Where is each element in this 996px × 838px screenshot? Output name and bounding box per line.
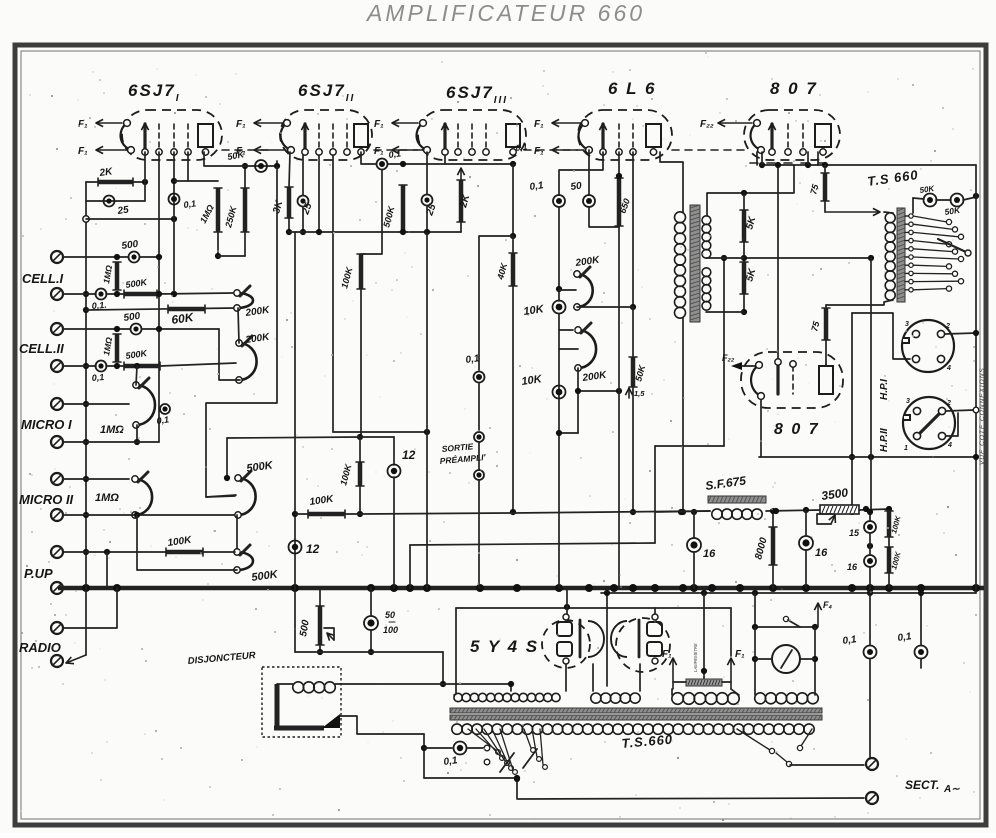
resistor 500K tube2: [401, 185, 406, 232]
resistor 100K r1: [887, 511, 892, 537]
wire micro1 hi: [63, 403, 129, 405]
potentiometer 200K drive1: [577, 274, 593, 307]
tube 6SJ7-II grid pin: [346, 124, 348, 149]
svg-text:1,5: 1,5: [634, 389, 645, 398]
wire y232 cathode rail: [289, 231, 461, 233]
svg-text:RADIO: RADIO: [19, 640, 61, 655]
wire to pot: [157, 293, 233, 294]
TS660 tap fan wire: [913, 257, 959, 259]
junction: [556, 286, 562, 292]
TS660 tap: [905, 223, 911, 225]
wire x361: [360, 289, 362, 438]
capacitor 0,1 micro: [160, 404, 170, 414]
terminal P.UP in lo: [51, 582, 63, 594]
junction diamonds: [678, 509, 684, 515]
wire y432: [333, 431, 427, 433]
resistor 1M vertical: [216, 188, 221, 232]
junction: [114, 326, 120, 332]
wire x870 low: [869, 588, 871, 645]
wire x889: [888, 537, 890, 547]
wire coupling to grid3: [388, 163, 513, 165]
terminal CELL.II in hi: [51, 323, 63, 335]
wire y219: [86, 218, 174, 220]
wire coil left: [277, 683, 293, 685]
wire x655 riser: [654, 446, 656, 543]
tube 6SJ7-III envelope: [418, 110, 526, 160]
tube 6SJ7-I heater leads F: [96, 122, 122, 124]
wire x218: [217, 232, 219, 256]
bus junction: [513, 584, 521, 592]
wire sec right taps: [737, 729, 770, 750]
tube 807 cathode: [751, 123, 761, 150]
junction on x86: [83, 307, 89, 313]
wire x704 centre: [703, 593, 705, 679]
wire x825: [824, 165, 826, 173]
fan switch arm b: [523, 749, 537, 768]
TS660 tap fan wire: [913, 216, 947, 222]
bus junction: [972, 584, 980, 592]
wire: [478, 383, 480, 430]
5Y4S filament arc b: [611, 621, 627, 657]
capacitor 25 tube3: [422, 195, 433, 206]
T.S.660 core bottom: [450, 715, 822, 720]
TS660 tap fan wire: [913, 224, 953, 229]
TS660 tap: [905, 215, 911, 217]
svg-text:6 L 6: 6 L 6: [608, 79, 656, 98]
capacitor 16 a: [687, 538, 701, 552]
junction: [83, 216, 89, 222]
TS660 winding c F: [672, 693, 684, 705]
svg-text:16: 16: [703, 548, 716, 560]
capacitor sortie a: [474, 432, 484, 442]
svg-text:8 0 7: 8 0 7: [770, 79, 818, 98]
wire 807L heater arrow: [742, 365, 755, 367]
potentiometer 1M MICRO I: [136, 385, 155, 425]
wire y593: [601, 592, 976, 594]
junction on x86: [83, 401, 89, 407]
wire: [302, 155, 304, 195]
bus junction: [113, 584, 121, 592]
resistor 500K: [124, 292, 157, 297]
ground bus wire: [58, 586, 984, 591]
tube 6SJ7-III control grid: [443, 124, 446, 150]
wire pup row: [63, 551, 166, 553]
terminal RADIO in hi: [51, 622, 63, 634]
resistor 60K: [168, 307, 205, 312]
svg-text:8 0 7: 8 0 7: [774, 421, 820, 438]
output transformer secondary coil b: [702, 268, 711, 277]
resistor 8000: [771, 527, 776, 565]
wire x913 stub: [912, 198, 914, 213]
capacitor 12: [289, 541, 302, 554]
wire CELL.I lo: [63, 293, 96, 295]
resistor 5K b: [742, 262, 747, 294]
tube 6SJ7-II control grid: [303, 124, 306, 150]
TS660 tap: [905, 281, 911, 283]
wire: [776, 753, 787, 762]
bus junction: [610, 584, 618, 592]
contact: [484, 759, 490, 765]
wire F4 arrow: [817, 603, 819, 627]
wire y258 link: [706, 257, 744, 259]
capacitor 12 b: [388, 465, 401, 478]
tube 6L6 cathode: [579, 123, 589, 150]
bus junction: [769, 584, 777, 592]
wire y256: [218, 255, 245, 257]
filament dash links between tubes: [222, 149, 268, 151]
svg-text:2: 2: [946, 400, 951, 407]
wire y391: [578, 390, 619, 392]
resistor 100K lower: [358, 462, 363, 486]
wire x806: [805, 510, 807, 536]
wire 807 plate drop: [817, 152, 819, 165]
bus junction: [629, 584, 637, 592]
capacitor 0,1 br a: [864, 646, 877, 659]
wire pot M1 top: [136, 366, 137, 385]
wire CELL.I hi: [63, 256, 128, 258]
wire: [558, 314, 560, 433]
TS660 switch arm: [938, 239, 966, 252]
tube 6SJ7-III plate: [506, 124, 520, 147]
capacitor 0,1 sortie: [474, 372, 485, 383]
svg-text:2: 2: [945, 323, 950, 330]
wire: [142, 328, 219, 330]
capacitor 16 c: [864, 555, 876, 567]
wire x410: [409, 545, 411, 588]
bus junction: [291, 584, 299, 592]
wire pin2 drop x159: [158, 152, 160, 442]
svg-text:3: 3: [906, 398, 910, 405]
junction: [114, 254, 120, 260]
capacitor 0,1: [96, 361, 107, 372]
terminal MICRO I in lo: [51, 436, 63, 448]
svg-text:25: 25: [116, 204, 130, 217]
wire 807L grid feed: [777, 165, 779, 358]
resistor 50K: [631, 357, 636, 387]
wire y652: [295, 651, 443, 653]
wire primary bottom: [682, 318, 684, 512]
svg-text:LAMPEMETRE: LAMPEMETRE: [693, 643, 698, 672]
wire: [393, 477, 395, 588]
speaker socket HP II: [903, 397, 955, 449]
wire x852: [851, 313, 853, 512]
TS660 winding b: [591, 693, 601, 703]
fan tap wire: [468, 729, 496, 750]
svg-text:4: 4: [947, 442, 952, 449]
wire x619 down: [618, 226, 620, 588]
wire x227 drop: [226, 438, 228, 478]
svg-text:F₂₂: F₂₂: [700, 119, 714, 130]
wire x86 to RADIO lo: [66, 655, 86, 663]
wire: [86, 200, 145, 202]
wire grid2 stub: [276, 161, 278, 166]
wire y457: [759, 456, 976, 458]
tube 6SJ7-I cathode: [121, 123, 131, 150]
svg-text:F₁: F₁: [374, 119, 384, 130]
tube 807 control grid: [770, 124, 773, 150]
wire x773: [772, 511, 774, 527]
TS660 tap fan wire: [913, 272, 953, 274]
wire 5Y4S bottom lead: [565, 664, 567, 691]
bus junction: [476, 584, 484, 592]
bus junction: [585, 584, 593, 592]
wire 807L plate lead: [825, 364, 827, 366]
wire micro1 lo: [63, 441, 159, 443]
svg-text:1: 1: [904, 445, 908, 452]
svg-text:4: 4: [946, 365, 951, 372]
svg-text:0,1: 0,1: [529, 180, 545, 193]
wire caps row: [913, 198, 924, 199]
wire pot C loop: [137, 515, 237, 570]
wire cath loop: [589, 207, 619, 227]
potentiometer 200K A: [237, 293, 253, 308]
terminal MICRO I in hi: [51, 398, 63, 410]
wire x755: [754, 593, 756, 627]
wire plate3 drop x513: [512, 164, 514, 236]
tube 807L grid bar: [776, 363, 779, 394]
wire x633 low: [632, 307, 634, 357]
junction on x86: [83, 291, 89, 297]
wire x731 to winding: [731, 689, 739, 695]
wire y310 60K row: [86, 308, 236, 310]
speaker socket HP I: [902, 320, 954, 372]
svg-text:100: 100: [383, 625, 398, 635]
resistor 250K: [243, 188, 248, 232]
resistor 1M CELL.II: [115, 334, 120, 362]
disjoncteur wedge: [322, 714, 340, 728]
wire meter taps: [755, 658, 772, 660]
terminal CELL.I in lo: [51, 288, 63, 300]
svg-text:P.UP: P.UP: [24, 566, 53, 581]
wire x731 drop: [730, 608, 732, 656]
disjoncteur coil: [293, 682, 304, 693]
5Y4S plate b2: [647, 642, 662, 656]
tube 6L6 plate: [646, 124, 661, 147]
svg-text:F₁: F₁: [735, 649, 745, 660]
svg-text:F₁: F₁: [78, 119, 88, 130]
TS660 tap: [905, 289, 911, 291]
wire y236 sortie branch: [479, 236, 513, 370]
choke S.F.675 core: [708, 496, 766, 503]
wire bus to 5Y4S: [566, 588, 568, 607]
wire 75b: [825, 305, 827, 308]
wire 2K bottom: [460, 222, 462, 232]
tube 6SJ7-III grid pin: [457, 124, 459, 149]
dash row under 807: [750, 162, 835, 164]
svg-text:VUE COTE CONNEXIONS: VUE COTE CONNEXIONS: [979, 367, 986, 465]
bus junction: [651, 584, 659, 592]
junction on x86: [83, 549, 89, 555]
output transformer secondary coil a: [702, 216, 711, 225]
tube 6SJ7-III cathode: [417, 123, 427, 150]
resistor 500K CELL.II: [124, 364, 160, 369]
wire pot M1 bottom: [136, 425, 138, 442]
wire 5Y4S right top: [654, 608, 656, 614]
TS660 tap fan wire: [913, 265, 947, 266]
bus junction: [82, 584, 90, 592]
junction on x86: [83, 439, 89, 445]
resistor 1M CELL.I: [115, 262, 120, 290]
fan tap wire: [524, 729, 531, 748]
wire x443: [442, 652, 444, 684]
fan tap wire: [476, 729, 500, 756]
svg-text:0,1: 0,1: [515, 141, 528, 153]
svg-text:12: 12: [306, 542, 320, 556]
svg-text:50: 50: [570, 180, 583, 193]
wire branch pot2 wiper: [559, 348, 578, 350]
wire x513 lower: [512, 236, 514, 253]
bus junction: [885, 584, 893, 592]
bus junction: [367, 584, 375, 592]
capacitor 0,1 disj: [454, 742, 467, 755]
wire pot1 bottom row: [577, 306, 633, 308]
wire x245: [244, 166, 246, 188]
label 1,5 arrow: [628, 388, 630, 398]
wire coil to x511: [335, 683, 511, 685]
svg-text:1MΩ: 1MΩ: [95, 492, 119, 504]
terminal RADIO in lo: [51, 655, 63, 667]
wire rail mid: [766, 510, 820, 511]
svg-text:12: 12: [402, 448, 416, 462]
svg-text:MICRO II: MICRO II: [19, 492, 74, 507]
svg-text:3: 3: [905, 321, 909, 328]
output transformer core: [690, 205, 700, 322]
wire meter left: [754, 627, 756, 695]
bus junction: [736, 584, 744, 592]
disjoncteur contact bar h: [274, 726, 324, 731]
wire x607 filament feed: [606, 593, 608, 686]
resistor 650: [617, 178, 622, 226]
choke S.F.675 winding: [712, 509, 722, 519]
junction on x86: [83, 476, 89, 482]
tube 807 heater leads F: [718, 122, 752, 124]
capacitor 50K a: [924, 194, 937, 207]
wire secondary top lead: [707, 165, 794, 216]
wire y437 right: [360, 436, 394, 438]
svg-text:0,1: 0,1: [388, 148, 402, 160]
tube 807 grid pin: [787, 124, 789, 149]
wire F1 right arrow: [730, 658, 732, 689]
wire to wiper: [203, 551, 235, 553]
svg-text:16: 16: [815, 547, 828, 559]
wire meter right: [814, 627, 816, 695]
fan tap wire: [484, 729, 505, 761]
wire: [869, 659, 871, 758]
wire: [467, 747, 484, 749]
T.S.660 core top: [450, 708, 822, 713]
svg-text:H.P.II: H.P.II: [879, 428, 890, 452]
potentiometer 1M MICRO II: [135, 479, 152, 515]
wire x870 mid: [869, 512, 871, 521]
HP II shorting bar: [920, 414, 939, 433]
wire cath2: [289, 152, 290, 187]
tube 6L6 grid pin: [632, 124, 634, 149]
resistor 2K tube3: [459, 180, 464, 222]
wire to pot B: [160, 363, 236, 366]
potentiometer 200K B: [239, 343, 257, 380]
TS660 tap fan wire: [913, 289, 947, 290]
tube 6L6 grid pin: [618, 124, 620, 149]
capacitor 16 b: [799, 536, 813, 550]
wire: [106, 293, 124, 295]
wire y165 rail: [762, 164, 976, 166]
bus junction: [423, 584, 431, 592]
tube 6SJ7-I grid pin: [173, 124, 175, 149]
TS660 winding d: [755, 693, 766, 704]
wire x295 drop: [294, 232, 296, 588]
wire 807L cathode lead: [760, 400, 762, 457]
junction: [400, 229, 406, 235]
tube 6L6 heater leads F: [552, 122, 580, 124]
rectifier 5Y4S envelope right: [616, 618, 670, 672]
svg-text:0,1: 0,1: [183, 198, 197, 210]
wire meter top: [755, 626, 815, 628]
wire plate4 to primary: [660, 152, 683, 212]
wire 75 to coil arrow: [824, 201, 826, 212]
TS660 tap fan wire: [913, 249, 953, 252]
junction: [741, 190, 747, 196]
tube 807L screen pin: [792, 366, 794, 394]
tube 6SJ7-I control grid: [143, 124, 146, 150]
wire radio hi: [63, 588, 117, 628]
svg-text:0,1: 0,1: [842, 634, 858, 647]
wire x333 long: [332, 155, 334, 432]
svg-text:CELL.II: CELL.II: [19, 341, 64, 356]
meter: [772, 645, 800, 673]
svg-text:2K: 2K: [98, 166, 114, 179]
wire left rail x86: [85, 182, 87, 655]
capacitor 0,1 tube1 screen: [169, 194, 180, 205]
TS660 tap: [905, 248, 911, 250]
wire hum pot ends: [673, 681, 686, 683]
TS660 tap: [905, 264, 911, 266]
svg-text:A∼: A∼: [943, 784, 960, 795]
svg-text:F₂₂: F₂₂: [722, 353, 735, 363]
wire to pot1 wiper: [559, 289, 576, 291]
bus junction: [848, 584, 856, 592]
resistor 75 b: [824, 308, 829, 340]
resistor 3500: [820, 505, 859, 514]
resistor 100K: [359, 254, 364, 289]
rectifier 5Y4S envelope left: [542, 620, 590, 668]
tube 6SJ7-II grid pin: [318, 124, 320, 149]
wire 807 cathode drop: [756, 152, 758, 165]
wire x295 low: [294, 588, 296, 652]
tube 6SJ7-III grid pin: [471, 124, 473, 149]
wire left coil top: [884, 212, 893, 213]
wire screen4 x633: [632, 152, 634, 307]
capacitor 0,1 coupling2: [377, 159, 388, 170]
meter switch contact: [783, 616, 788, 621]
tube 6SJ7-I grid pin: [187, 124, 189, 149]
wire rail right: [859, 509, 889, 510]
wire: [478, 480, 480, 588]
TS660 tap fan wire: [913, 232, 959, 236]
wire: [478, 442, 480, 470]
paper speckle noise: [329, 164, 331, 166]
capacitor 50K b: [951, 194, 964, 207]
capacitor 25 tube2: [298, 196, 309, 207]
wire y433: [559, 432, 578, 434]
capacitor 0,1 6L6: [553, 195, 565, 207]
wire cathode 6SJ7-I: [86, 181, 145, 183]
svg-text:CELL.I: CELL.I: [22, 271, 64, 286]
bus junction: [708, 584, 716, 592]
bus junction: [390, 584, 398, 592]
capacitor 10K b: [553, 386, 566, 399]
svg-text:5 Y 4 S: 5 Y 4 S: [470, 637, 539, 656]
filament hum pot: [686, 679, 722, 686]
